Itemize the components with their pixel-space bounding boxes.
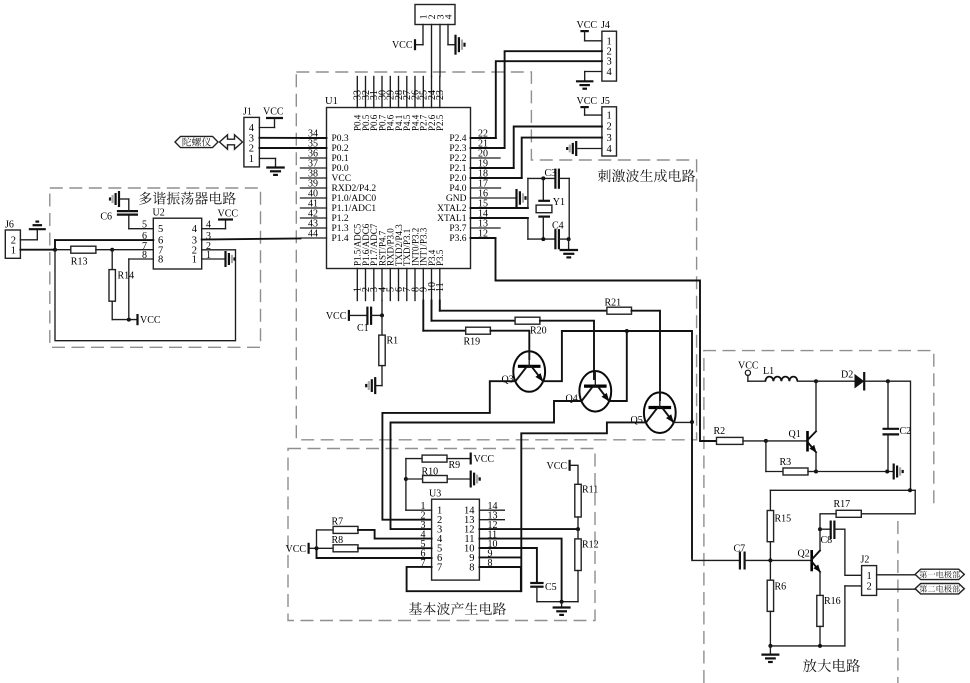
U1 top pin 30 (P0.7) bbox=[381, 77, 383, 108]
svg-text:VCC: VCC bbox=[286, 544, 307, 555]
U1 top pin 24 (P2.6) bbox=[431, 77, 433, 108]
power VCC (top connector) bbox=[414, 39, 416, 50]
resistor R20 bbox=[515, 317, 540, 324]
node: R13 right / R14 top bbox=[110, 248, 114, 252]
svg-text:R8: R8 bbox=[332, 535, 344, 546]
U1 top pin 28 (P4.1) bbox=[398, 77, 400, 108]
U1 bottom pin 4 (RST/P4.7) bbox=[381, 269, 383, 301]
ground (J1 pin1) bbox=[266, 166, 285, 168]
U1 bottom pin 10 (P3.4) bbox=[431, 269, 433, 301]
resistor R16 (vertical) bbox=[817, 595, 823, 626]
node: R11/R12/pin12 bbox=[576, 527, 580, 531]
wire: C5/R12 bottom rail bbox=[537, 601, 578, 603]
svg-text:R15: R15 bbox=[775, 514, 792, 525]
svg-text:R9: R9 bbox=[449, 460, 461, 471]
svg-text:P3.5: P3.5 bbox=[435, 249, 445, 266]
ground (J4 pin4) bbox=[576, 80, 594, 82]
ground (C6, sideways) bbox=[118, 191, 120, 207]
svg-text:J6: J6 bbox=[5, 219, 14, 230]
svg-text:P0.0: P0.0 bbox=[332, 164, 349, 174]
svg-text:R3: R3 bbox=[780, 457, 792, 468]
power VCC (J1) bbox=[266, 117, 283, 119]
U3 pin14 stub bbox=[479, 509, 504, 511]
U1 bottom pin 11 (P3.5) bbox=[439, 269, 441, 301]
wire: U2 pin6 long line to left bbox=[55, 239, 153, 241]
svg-text:1: 1 bbox=[192, 255, 197, 266]
svg-text:8: 8 bbox=[469, 562, 474, 573]
svg-text:R20: R20 bbox=[530, 326, 547, 337]
dashed box: basic wave generation section 基本波产生电路 bbox=[288, 449, 595, 621]
wire: R8 to U3 pin5 bbox=[358, 547, 432, 549]
transistor Q5 bbox=[644, 392, 676, 433]
resistor R2 bbox=[717, 437, 744, 444]
transistor Q3 bbox=[513, 351, 545, 392]
power VCC (C1) bbox=[348, 310, 350, 321]
svg-text:4: 4 bbox=[607, 67, 613, 78]
resistor R15 (vertical) bbox=[769, 490, 771, 510]
U1 right pin 13 (P3.7) bbox=[471, 227, 501, 229]
svg-text:5: 5 bbox=[158, 224, 163, 235]
wire: U3 pin11 to ground node bbox=[479, 539, 561, 602]
wire: C8 to J2 pin1 bbox=[834, 529, 861, 575]
U1 left pin 41 (P1.1/ADC1) bbox=[301, 207, 327, 209]
svg-text:C1: C1 bbox=[357, 323, 369, 334]
capacitor C1 bbox=[349, 314, 368, 316]
U1 bottom pin 5 (RXD/P3.0) bbox=[389, 269, 391, 301]
wire: U1 pin4 RST down to R1 bbox=[381, 301, 383, 336]
svg-text:L1: L1 bbox=[763, 366, 774, 377]
node: RST/C1/R1 bbox=[380, 313, 384, 317]
svg-text:VCC: VCC bbox=[332, 174, 352, 184]
ground (U2 pin1, sideways) bbox=[224, 251, 226, 267]
svg-text:RXD2/P4.2: RXD2/P4.2 bbox=[332, 184, 377, 194]
svg-text:7: 7 bbox=[437, 562, 442, 573]
emitter bus wire bbox=[562, 331, 692, 559]
svg-text:C5: C5 bbox=[545, 582, 557, 593]
bidirectional arrow symbol bbox=[220, 135, 243, 149]
connector J2 bbox=[862, 566, 877, 596]
U1 bottom pin 6 (TXD2/P4.3) bbox=[398, 269, 400, 301]
node: Q2 base node bbox=[768, 558, 772, 562]
U1 top pin 25 (P2.7) bbox=[422, 77, 424, 108]
power VCC (J4) bbox=[580, 30, 588, 32]
ground (J6 pin2, pointing up) bbox=[29, 228, 46, 230]
power VCC (R9) bbox=[470, 453, 472, 465]
svg-text:12: 12 bbox=[478, 229, 488, 240]
wire: J5 pin2 to U1 pin 19 (P2.1) bbox=[514, 127, 602, 169]
U1 top pin 26 (P4.4) bbox=[414, 77, 416, 108]
svg-text:11: 11 bbox=[435, 282, 446, 292]
U1 left pin 34 (P0.3) bbox=[301, 137, 327, 139]
U3 pin13 stub bbox=[479, 519, 504, 521]
svg-text:R7: R7 bbox=[332, 517, 344, 528]
wire: U2 pin2 feedback loop bbox=[55, 250, 236, 341]
svg-text:VCC: VCC bbox=[392, 40, 413, 51]
wire: J1 pin2 to U1 pin 35 bbox=[259, 147, 300, 149]
node: Q5 emitter on bus bbox=[690, 420, 694, 424]
resistor R12 (vertical) bbox=[577, 529, 579, 539]
wire: U3 pin1 to R9/R10 bbox=[406, 509, 432, 511]
svg-text:C6: C6 bbox=[100, 212, 112, 223]
power VCC (U2 pin4) bbox=[218, 218, 233, 220]
svg-text:3: 3 bbox=[607, 133, 612, 144]
node: R2/Q1 base/R3 bbox=[764, 439, 768, 443]
svg-text:P1.4: P1.4 bbox=[332, 234, 349, 244]
svg-text:U2: U2 bbox=[153, 208, 165, 219]
U1 left pin 38 (VCC) bbox=[301, 177, 327, 179]
wire: U2 pin8 down to VCC node bbox=[129, 258, 154, 260]
svg-text:P2.1: P2.1 bbox=[449, 164, 466, 174]
U1 left pin 40 (P1.0/ADC0) bbox=[301, 197, 327, 199]
svg-text:U1: U1 bbox=[325, 96, 338, 107]
wire: J2 pin2 output bbox=[877, 588, 916, 590]
svg-text:P0.2: P0.2 bbox=[332, 144, 349, 154]
wire: U1 pin9 down to R19 row bbox=[422, 301, 424, 331]
node: R17/C8/Q2 collector bbox=[818, 527, 822, 531]
svg-text:Q5: Q5 bbox=[631, 415, 643, 426]
U1 bottom pin 9 (INT1/P3.3) bbox=[422, 269, 424, 301]
U1 left pin 35 (P0.2) bbox=[301, 147, 327, 149]
svg-text:P3.7: P3.7 bbox=[449, 224, 466, 234]
wire: Q3 collector to U3 pin2 bbox=[382, 381, 515, 520]
wire: J5 pin3 to U1 pin 18 (P2.0) bbox=[522, 138, 602, 178]
svg-text:P2.0: P2.0 bbox=[449, 174, 466, 184]
power VCC (R14 bottom) bbox=[136, 314, 138, 325]
connector J6 bbox=[5, 230, 20, 258]
resistor R7 bbox=[317, 530, 334, 548]
crystal Y1 bbox=[542, 178, 544, 200]
U1 top pin 27 (P4.5) bbox=[406, 77, 408, 108]
U1 top pin 33 (P0.4) bbox=[356, 77, 358, 108]
svg-text:C7: C7 bbox=[734, 544, 746, 555]
svg-text:R12: R12 bbox=[582, 540, 599, 551]
wire: U1 pin10 down to R20 row bbox=[431, 301, 433, 321]
svg-text:VCC: VCC bbox=[140, 315, 161, 326]
wire: Q4 emitter to common bus bbox=[609, 331, 627, 401]
U1 top pin 23 (P2.5) bbox=[439, 77, 441, 108]
resistor R14 (vertical) bbox=[111, 250, 113, 270]
resistor R9 bbox=[406, 458, 422, 460]
wire: Q5 emitter junction bbox=[674, 421, 693, 424]
svg-text:P2.2: P2.2 bbox=[449, 154, 466, 164]
node: L1/Q1 collector bbox=[814, 379, 818, 383]
wire: J5 pin1 to VCC bbox=[584, 107, 586, 115]
flag label 第一电极部 (first electrode) bbox=[915, 569, 964, 579]
dashed box: multivibrator section 多谐振荡器电路 bbox=[50, 188, 261, 347]
wire: R7 to U3 pin4 bbox=[358, 530, 432, 539]
top connector header (pins 1-4) bbox=[415, 5, 455, 25]
U1 bottom pin 8 (INT0/P3.2) bbox=[414, 269, 416, 301]
U1 right pin 16 (GND) bbox=[471, 197, 517, 199]
U1 left pin 39 (RXD2/P4.2) bbox=[301, 187, 327, 189]
wire: R1 to ground bbox=[381, 366, 383, 386]
wire: R14 bottom to VCC bbox=[112, 319, 137, 321]
wire: XTAL2 riser to crystal node bbox=[527, 178, 529, 208]
svg-text:VCC: VCC bbox=[577, 96, 598, 107]
wire: R13 node to U2 pin7 bbox=[112, 249, 153, 251]
svg-text:1: 1 bbox=[249, 154, 254, 165]
capacitor C3 bbox=[554, 169, 556, 189]
U1 right pin 20 (P2.2) bbox=[471, 157, 501, 159]
wire: U3 pin10 to C5 bbox=[479, 548, 537, 583]
svg-text:Y1: Y1 bbox=[553, 197, 565, 208]
svg-text:R11: R11 bbox=[582, 485, 598, 496]
ground (crystal) bbox=[568, 239, 570, 250]
svg-text:J4: J4 bbox=[601, 20, 610, 31]
node: XTAL2/C3/Y1 bbox=[528, 177, 556, 179]
svg-text:2: 2 bbox=[249, 144, 254, 155]
ground (R3 rail, sideways) bbox=[893, 464, 895, 480]
svg-text:R14: R14 bbox=[118, 271, 135, 282]
svg-text:C3: C3 bbox=[545, 168, 557, 179]
svg-text:C4: C4 bbox=[552, 220, 564, 231]
wire: J5 pin4 to ground bbox=[578, 148, 602, 150]
MCU U1 bbox=[327, 108, 471, 269]
wire: U2 pin5 to C6 bbox=[129, 228, 154, 230]
node: Q4 emitter on bus bbox=[625, 329, 629, 333]
U1 right pin 15 (XTAL2) bbox=[471, 207, 528, 209]
wire: R21 to Q5 base bbox=[632, 311, 661, 400]
svg-text:R17: R17 bbox=[834, 499, 851, 510]
wire: U1 pin11 down to R21 row bbox=[439, 301, 441, 311]
wire: Q1 emitter down to R3 rail bbox=[815, 452, 817, 471]
capacitor C2 bbox=[887, 381, 889, 429]
wire: XTAL1 down to bottom rail bbox=[527, 218, 529, 239]
svg-text:J5: J5 bbox=[601, 96, 610, 107]
node: ground node bbox=[560, 600, 564, 604]
U1 right pin 14 (XTAL1) bbox=[471, 217, 528, 219]
svg-text:C8: C8 bbox=[821, 535, 833, 546]
wire: connector pin1 to VCC bbox=[422, 25, 424, 45]
svg-text:1: 1 bbox=[11, 245, 16, 256]
connector J5 bbox=[602, 107, 617, 156]
svg-text:Q1: Q1 bbox=[789, 429, 801, 440]
wire: C4 to ground node bbox=[559, 238, 569, 240]
inductor L1 bbox=[748, 380, 766, 382]
svg-text:P0.1: P0.1 bbox=[332, 154, 349, 164]
svg-text:R19: R19 bbox=[464, 337, 481, 348]
U1 left pin 43 (P1.3) bbox=[301, 227, 327, 229]
svg-text:D2: D2 bbox=[841, 370, 853, 381]
svg-text:VCC: VCC bbox=[326, 311, 347, 322]
svg-text:Q2: Q2 bbox=[798, 549, 810, 560]
transistor Q4 bbox=[579, 371, 611, 412]
transistor Q1 bbox=[766, 440, 808, 442]
connector J1 bbox=[244, 117, 260, 166]
wire: J1 pin1 to ground bbox=[259, 157, 275, 159]
ground (amplifier) bbox=[769, 646, 771, 655]
wire: U1 pin12 (P3.6) route to amplifier R2 bbox=[496, 238, 717, 441]
svg-text:8: 8 bbox=[158, 255, 163, 266]
power VCC (R7/R8 node) bbox=[308, 543, 310, 554]
node: J6/R13/U2 loop junction bbox=[53, 248, 57, 252]
svg-text:P2.4: P2.4 bbox=[449, 134, 466, 144]
wire: J4 pin3 to U1 pin 22 (P2.4) bbox=[496, 61, 602, 138]
wire: D2 output to right rail bbox=[888, 381, 911, 490]
U1 top pin 29 (P4.6) bbox=[389, 77, 391, 108]
resistor R10 bbox=[406, 478, 423, 480]
U1 right pin 12 (P3.6) bbox=[471, 237, 496, 239]
capacitor C6 bbox=[117, 210, 138, 212]
wire: J4 pin2 to U1 pin 21 (P2.3) bbox=[505, 51, 602, 148]
connector J4 bbox=[602, 31, 617, 81]
resistor R19 bbox=[466, 327, 491, 334]
wire: U2 pin4 to VCC bbox=[202, 228, 226, 230]
U1 right pin 18 (P2.0) bbox=[471, 177, 522, 179]
wire: R19 to Q3 base bbox=[490, 331, 529, 359]
wire: R20 to Q4 base bbox=[540, 321, 594, 379]
svg-text:P1.2: P1.2 bbox=[332, 214, 349, 224]
wire: U2 pin1 to ground bbox=[202, 258, 226, 260]
U1 bottom pin 3 (P1.7/ADC7) bbox=[373, 269, 375, 301]
power VCC (J5) bbox=[580, 106, 588, 108]
svg-text:1: 1 bbox=[607, 36, 612, 47]
svg-text:R13: R13 bbox=[71, 257, 88, 268]
wire: Q5 collector to U3 pins 8/9 bbox=[521, 422, 646, 591]
svg-text:C2: C2 bbox=[900, 426, 912, 437]
resistor R13 bbox=[55, 249, 71, 251]
svg-text:R6: R6 bbox=[775, 582, 787, 593]
wire: Q4 collector to U3 pin3 bbox=[391, 401, 582, 529]
flag label 陀螺仪 (gyroscope) bbox=[175, 136, 218, 147]
ground (R10, sideways) bbox=[470, 471, 472, 488]
svg-text:R16: R16 bbox=[824, 596, 841, 607]
wire: C6 to ground bbox=[128, 199, 130, 211]
svg-text:R1: R1 bbox=[387, 336, 399, 347]
IC U3 (counter) bbox=[432, 499, 480, 580]
svg-text:4: 4 bbox=[607, 144, 613, 155]
resistor R17 bbox=[861, 490, 915, 514]
wire: Q2 collector up to C8 node bbox=[819, 529, 821, 550]
svg-text:VCC: VCC bbox=[577, 20, 598, 31]
bottom rail (amplifier) bbox=[770, 645, 845, 647]
wire: C3 right to ground rail bbox=[559, 177, 569, 179]
wire: J1 pin3 to U1 pin 34 bbox=[259, 137, 300, 139]
wire: J4 pin4 to ground bbox=[585, 71, 602, 73]
node: D2/C2 bbox=[886, 379, 890, 383]
svg-text:1: 1 bbox=[867, 571, 872, 582]
wire: connector pin3 down to U1 pin 23 bbox=[439, 25, 441, 77]
ground (J5 pin4, sideways) bbox=[575, 141, 577, 156]
svg-text:R2: R2 bbox=[714, 426, 726, 437]
resistor R21 bbox=[607, 307, 632, 314]
svg-text:P2.5: P2.5 bbox=[435, 114, 445, 131]
U1 right pin 21 (P2.3) bbox=[471, 147, 505, 149]
ground (top connector) bbox=[454, 35, 456, 55]
svg-text:VCC: VCC bbox=[263, 107, 284, 118]
U1 left pin 44 (P1.4) bbox=[301, 237, 327, 239]
wire: J1 pin4 to VCC bbox=[274, 118, 276, 128]
svg-text:J2: J2 bbox=[861, 555, 870, 566]
capacitor C8 bbox=[820, 528, 831, 530]
svg-text:R10: R10 bbox=[422, 467, 439, 478]
svg-text:J1: J1 bbox=[243, 107, 252, 118]
svg-text:GND: GND bbox=[446, 194, 467, 204]
wire: U2 pin3 to U1 pin 44 bbox=[202, 238, 301, 239]
svg-text:R21: R21 bbox=[605, 298, 622, 309]
diode D2 bbox=[855, 374, 865, 389]
U1 right pin 17 (P4.0) bbox=[471, 187, 501, 189]
wire: Q1 collector up to L1 node bbox=[815, 381, 817, 431]
U1 left pin 36 (P0.1) bbox=[301, 157, 327, 159]
svg-text:2: 2 bbox=[867, 582, 872, 593]
capacitor C7 bbox=[691, 559, 693, 561]
svg-text:44: 44 bbox=[308, 229, 318, 240]
resistor R6 (vertical) bbox=[769, 560, 771, 580]
IC U2 (oscillator) bbox=[153, 218, 201, 269]
node: C2 bottom on R3 rail bbox=[885, 470, 889, 474]
resistor R3 bbox=[765, 441, 767, 472]
node: R14/U2 pin8/VCC junction bbox=[127, 318, 131, 322]
U1 left pin 37 (P0.0) bbox=[301, 167, 327, 169]
capacitor C5 bbox=[530, 582, 543, 584]
U1 top pin 32 (P0.5) bbox=[365, 77, 367, 108]
svg-text:P1.0/ADC0: P1.0/ADC0 bbox=[332, 194, 377, 204]
node: R10 left junction bbox=[404, 477, 408, 481]
wire: J4 pin1 to VCC bbox=[584, 31, 586, 41]
svg-text:VCC: VCC bbox=[474, 454, 495, 465]
wire: connector pin4 to ground bbox=[447, 25, 449, 45]
svg-text:P0.3: P0.3 bbox=[332, 134, 349, 144]
resistor R8 bbox=[317, 547, 334, 549]
svg-text:U3: U3 bbox=[429, 489, 441, 500]
dashed box: stimulus wave generation section 刺激波生成电路 bbox=[296, 72, 696, 440]
wire: J2 pin2 riser bbox=[844, 586, 846, 646]
svg-text:P1.1/ADC1: P1.1/ADC1 bbox=[332, 204, 377, 214]
wire: J2 pin1 output bbox=[877, 574, 916, 576]
resistor R1 (vertical) bbox=[379, 335, 385, 366]
flag label 第二电极部 (second electrode) bbox=[915, 584, 964, 594]
capacitor C4 bbox=[554, 229, 556, 249]
wire: J6 pin2 to ground bbox=[20, 239, 37, 241]
U1 left pin 42 (P1.2) bbox=[301, 217, 327, 219]
wire: U3 pin9 to Q5 drop bbox=[479, 556, 521, 558]
ground (U3 section) bbox=[561, 602, 563, 608]
svg-text:XTAL1: XTAL1 bbox=[437, 214, 467, 224]
wire: U3 pin7 to pin8 ground loop bbox=[407, 567, 521, 591]
ground (R1, sideways) bbox=[374, 377, 376, 394]
dashed box: amplifier section 放大电路 bbox=[704, 351, 934, 683]
svg-text:XTAL2: XTAL2 bbox=[437, 204, 467, 214]
svg-text:P4.0: P4.0 bbox=[449, 184, 466, 194]
svg-text:1: 1 bbox=[607, 111, 612, 122]
wire: VCC node to U3 pin6 bbox=[317, 548, 432, 558]
U1 bottom pin 1 (P1.5/ADC5) bbox=[356, 269, 358, 301]
U1 right pin 22 (P2.4) bbox=[471, 137, 496, 139]
svg-text:VCC: VCC bbox=[218, 209, 239, 220]
wire: Q3 emitter to common bus bbox=[543, 331, 562, 381]
svg-text:Q4: Q4 bbox=[566, 394, 578, 405]
transistor Q2 bbox=[770, 559, 811, 561]
svg-text:2: 2 bbox=[607, 122, 612, 133]
svg-text:P2.3: P2.3 bbox=[449, 144, 466, 154]
wire: Q2 emitter down to R16 bbox=[819, 572, 821, 596]
svg-text:Q3: Q3 bbox=[502, 375, 514, 386]
svg-text:P1.3: P1.3 bbox=[332, 224, 349, 234]
wire: U3 pin12 to R11/R12 divider bbox=[479, 528, 578, 530]
power VCC (R11) bbox=[568, 460, 570, 471]
U1 bottom pin 7 (TXD/P3.1) bbox=[406, 269, 408, 301]
resistor R11 (vertical) bbox=[575, 484, 581, 517]
svg-text:VCC: VCC bbox=[547, 461, 568, 472]
ground (U1 pin16 GND, sideways) bbox=[515, 189, 517, 207]
U1 bottom pin 2 (P1.6/ADC6) bbox=[365, 269, 367, 301]
U1 top pin 31 (P0.6) bbox=[373, 77, 375, 108]
U1 right pin 19 (P2.1) bbox=[471, 167, 514, 169]
svg-text:4: 4 bbox=[192, 224, 198, 235]
svg-text:23: 23 bbox=[435, 90, 446, 100]
svg-text:4: 4 bbox=[444, 14, 454, 19]
